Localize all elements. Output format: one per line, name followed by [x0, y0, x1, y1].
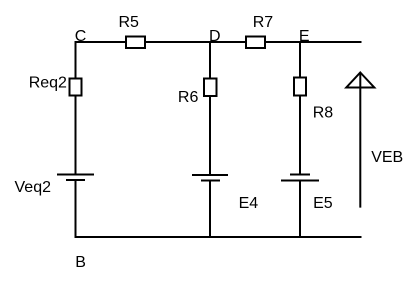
battery Veq2 [15, 175, 95, 197]
svg-text:Req2: Req2 [29, 75, 67, 92]
wire middle branch upper (D to E4) [209, 42, 211, 175]
wire right branch lower (E5 to bottom bus) [299, 181, 301, 238]
svg-text:R5: R5 [119, 14, 140, 31]
resistor Req2 [29, 75, 82, 96]
svg-text:B: B [75, 254, 86, 271]
svg-text:D: D [209, 28, 221, 45]
arrow VEB (EMF/voltage arrow) [346, 73, 403, 208]
wire left branch lower (Veq2 to B) [75, 180, 77, 238]
battery E5 [281, 175, 333, 213]
battery E4 [192, 175, 258, 212]
svg-text:R7: R7 [253, 14, 274, 31]
svg-text:R8: R8 [313, 104, 334, 121]
svg-text:E5: E5 [313, 195, 333, 212]
svg-text:C: C [75, 28, 87, 45]
svg-text:VEB: VEB [371, 149, 403, 166]
resistor R7 [246, 14, 273, 48]
wire left branch upper (C to Veq2) [75, 41, 77, 175]
wire middle branch lower (E4 to bottom bus) [209, 181, 211, 238]
svg-text:Veq2: Veq2 [15, 179, 52, 196]
wire top bus C-D-E [75, 41, 362, 43]
wire bottom bus B [75, 236, 362, 238]
svg-text:E4: E4 [239, 195, 259, 212]
resistor R8 [294, 78, 333, 122]
svg-text:R6: R6 [178, 89, 199, 106]
wire right branch upper (E to E5) [299, 42, 301, 174]
svg-text:E: E [299, 28, 310, 45]
resistor R5 [119, 14, 146, 48]
resistor R6 [178, 79, 217, 107]
